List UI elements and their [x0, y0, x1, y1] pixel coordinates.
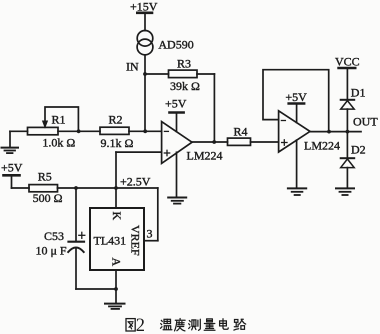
svg-text:TL431: TL431 [94, 234, 127, 248]
svg-text:IN: IN [126, 60, 139, 74]
svg-text:500 Ω: 500 Ω [33, 191, 63, 205]
svg-text:A: A [110, 258, 124, 267]
svg-text:+2.5V: +2.5V [120, 175, 151, 189]
svg-text:2: 2 [136, 316, 145, 334]
svg-text:R4: R4 [234, 125, 248, 139]
svg-text:9.1k Ω: 9.1k Ω [101, 136, 134, 150]
svg-text:K: K [110, 212, 124, 221]
svg-text:OUT: OUT [353, 115, 378, 129]
svg-text:D2: D2 [351, 143, 366, 157]
svg-text:LM224: LM224 [304, 139, 340, 153]
svg-text:1.0k Ω: 1.0k Ω [42, 136, 75, 150]
svg-text:10 μ F: 10 μ F [36, 244, 67, 258]
svg-text:D1: D1 [351, 86, 366, 100]
svg-text:R5: R5 [38, 170, 52, 184]
svg-text:C53: C53 [44, 229, 64, 243]
svg-text:R3: R3 [177, 57, 191, 71]
svg-text:R1: R1 [52, 113, 66, 127]
svg-text:R2: R2 [109, 113, 123, 127]
svg-text:+5V: +5V [285, 90, 307, 104]
svg-text:AD590: AD590 [158, 38, 193, 52]
svg-text:LM224: LM224 [187, 149, 223, 163]
svg-text:+5V: +5V [165, 97, 187, 111]
svg-text:+15V: +15V [130, 0, 158, 14]
svg-text:VCC: VCC [335, 55, 360, 69]
svg-text:+5V: +5V [1, 161, 23, 175]
svg-text:3: 3 [147, 227, 153, 241]
svg-text:39k Ω: 39k Ω [170, 79, 200, 93]
svg-text:VREF: VREF [129, 225, 143, 256]
